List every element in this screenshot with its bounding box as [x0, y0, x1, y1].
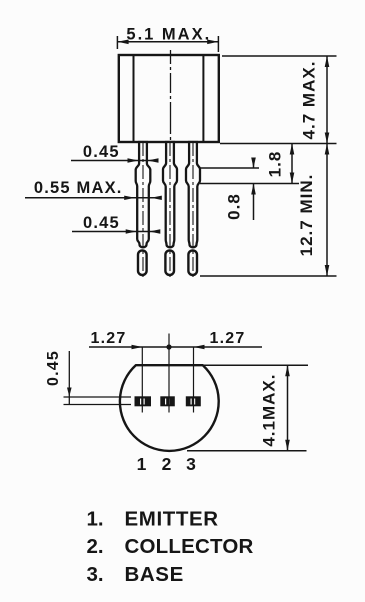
dimension 0.45 (lead thickness, bottom view) — [45, 350, 131, 404]
extension line body bottom — [220, 143, 337, 145]
legend 3. BASE — [87, 563, 184, 586]
svg-text:COLLECTOR: COLLECTOR — [125, 535, 254, 558]
dimension 4.7 MAX. — [300, 56, 330, 144]
svg-text:4.7 MAX.: 4.7 MAX. — [300, 61, 319, 140]
svg-text:2: 2 — [162, 454, 172, 474]
package body outline (top view) — [119, 55, 219, 142]
dimension 0.55 MAX. (widest lead width) — [25, 179, 162, 200]
svg-text:12.7 MIN.: 12.7 MIN. — [297, 174, 316, 257]
svg-text:1.: 1. — [87, 508, 104, 531]
svg-text:3: 3 — [186, 454, 196, 474]
lead 3 (base, top view) — [186, 142, 200, 280]
extension line lead tips — [200, 275, 337, 277]
svg-text:5.1 MAX.: 5.1 MAX. — [126, 26, 211, 44]
dimension 1.8 — [266, 144, 295, 184]
dimension 0.45 (upper lead width) — [71, 143, 159, 163]
lead 1 (emitter, top view) — [136, 142, 151, 280]
svg-text:4.1MAX.: 4.1MAX. — [260, 374, 279, 447]
lead 3 cross-section — [186, 396, 201, 406]
svg-text:1.27: 1.27 — [91, 330, 127, 347]
svg-text:2.: 2. — [87, 535, 104, 558]
svg-text:EMITTER: EMITTER — [125, 508, 219, 531]
svg-text:1.27: 1.27 — [210, 330, 246, 347]
svg-text:3.: 3. — [87, 563, 104, 586]
dimension 0.8 — [225, 158, 256, 221]
svg-text:1.8: 1.8 — [266, 151, 285, 178]
svg-text:1: 1 — [137, 454, 147, 474]
extension line lead wide end — [200, 183, 299, 185]
lead centerlines (bottom view) — [141, 347, 143, 413]
svg-text:0.45: 0.45 — [83, 214, 120, 232]
legend 1. EMITTER — [87, 508, 219, 531]
lead 2 (collector, top view) — [163, 142, 177, 280]
dimension 1.27 (left and right pitch) — [89, 330, 262, 350]
extension line lead flare start — [200, 167, 259, 169]
svg-text:BASE: BASE — [125, 563, 184, 586]
lead 2 cross-section — [160, 396, 175, 406]
extension line body top — [222, 55, 337, 57]
svg-text:0.55 MAX.: 0.55 MAX. — [34, 179, 123, 197]
svg-text:0.8: 0.8 — [225, 193, 244, 220]
lead 1 cross-section — [135, 396, 152, 406]
body centerline — [170, 50, 172, 142]
svg-text:0.45: 0.45 — [83, 143, 120, 161]
dimension 12.7 MIN. — [297, 144, 329, 277]
package outline (bottom view) — [120, 365, 219, 451]
dimension 0.45 (lower lead width) — [72, 214, 160, 234]
dimension 4.1 MAX. — [187, 365, 308, 451]
legend 2. COLLECTOR — [87, 535, 254, 558]
dimension 5.1 MAX. — [117, 26, 218, 53]
svg-text:0.45: 0.45 — [45, 350, 62, 386]
